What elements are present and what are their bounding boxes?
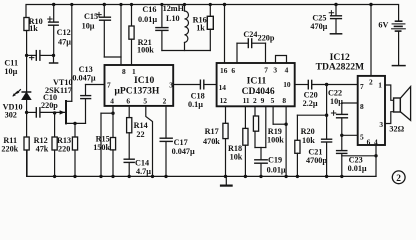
wire IC10 pin4 branch: [112, 106, 114, 138]
svg-text:4: 4: [110, 96, 114, 105]
wire IC11 pin10 / C20 node: [295, 84, 308, 86]
svg-text:2: 2: [253, 96, 257, 105]
capacitor C17 on IC10 pin2 line: [165, 106, 167, 138]
resistor R20: [297, 114, 326, 116]
svg-text:C23: C23: [349, 155, 363, 164]
resistor R11: [24, 137, 29, 150]
capacitor C22: [337, 113, 348, 115]
svg-text:0.047µ: 0.047µ: [72, 73, 95, 82]
wire IC12 pin4 / ground return: [375, 145, 377, 176]
node gate/R12 junction: [53, 111, 56, 114]
svg-text:32Ω: 32Ω: [389, 125, 404, 134]
svg-text:4: 4: [285, 65, 289, 74]
svg-text:C15: C15: [84, 12, 98, 21]
svg-text:0.047µ: 0.047µ: [172, 147, 195, 156]
svg-text:6: 6: [126, 96, 130, 105]
node pin2/pin9 join: [255, 147, 266, 149]
resistor R14 on IC10 pin6 line: [128, 106, 130, 118]
wire bottom ground rail: [27, 150, 376, 176]
svg-text:7: 7: [107, 80, 111, 89]
resistor R10: [24, 18, 29, 31]
capacitor C24 between pin6 and pin7: [236, 43, 238, 63]
wire JFET drain to rail: [71, 5, 73, 102]
svg-text:47k: 47k: [36, 145, 49, 154]
resistor R19 on IC11 pin2 line: [254, 106, 256, 116]
node circled figure number 2: [392, 171, 405, 184]
photodiode VD10: [22, 91, 30, 93]
svg-text:10µ: 10µ: [330, 97, 343, 106]
capacitor C14: [124, 158, 134, 160]
wire IC11 pin5: [272, 106, 274, 124]
wire tank bottom node: [162, 50, 210, 52]
svg-text:TDA2822M: TDA2822M: [316, 61, 365, 72]
wire IC11 pin8 line: [285, 106, 287, 176]
svg-text:0.01µ: 0.01µ: [267, 166, 286, 175]
wire IC10 pin3 to IC11 pin14: [173, 84, 200, 86]
svg-text:12mH: 12mH: [163, 4, 185, 13]
capacitor C12: [53, 5, 55, 23]
svg-text:14: 14: [219, 83, 227, 92]
op-amp U IC12 box: [358, 76, 385, 145]
svg-text:C24: C24: [243, 30, 257, 39]
capacitor C11: [27, 54, 36, 56]
battery 6V: [396, 20, 402, 22]
svg-text:1: 1: [378, 80, 382, 89]
svg-text:100k: 100k: [267, 135, 284, 144]
node C10 junction: [25, 111, 28, 114]
svg-text:0.01µ: 0.01µ: [138, 15, 157, 24]
svg-text:IC11: IC11: [247, 75, 267, 86]
svg-text:0.01µ: 0.01µ: [348, 164, 367, 173]
svg-text:C19: C19: [268, 156, 282, 165]
svg-text:1k: 1k: [29, 24, 38, 33]
ground symbol: [225, 176, 227, 185]
node rail junctions: [53, 175, 56, 178]
svg-text:4700p: 4700p: [306, 156, 327, 165]
svg-text:2.2µ: 2.2µ: [303, 99, 318, 108]
svg-text:6: 6: [231, 66, 235, 75]
svg-text:R20: R20: [301, 127, 315, 136]
svg-text:47µ: 47µ: [58, 38, 71, 47]
svg-text:220p: 220p: [41, 101, 58, 110]
wire IC11 pin9 line: [265, 106, 267, 147]
svg-text:2SK117: 2SK117: [45, 86, 72, 95]
svg-text:IC10: IC10: [134, 75, 154, 86]
capacitor C23: [337, 150, 347, 152]
op-amp U IC10 box: [105, 65, 174, 106]
svg-text:6V: 6V: [378, 20, 388, 29]
transistor VT10 2SK117 JFET: [40, 111, 64, 113]
svg-text:10k: 10k: [230, 153, 243, 162]
node source/R13 junction: [73, 122, 76, 125]
inductor L10: [184, 5, 186, 12]
svg-text:3: 3: [273, 65, 277, 74]
svg-text:R17: R17: [205, 127, 219, 136]
capacitor C20: [307, 80, 309, 88]
svg-text:470k: 470k: [203, 137, 220, 146]
svg-text:6: 6: [367, 137, 371, 146]
svg-text:3: 3: [379, 120, 383, 129]
svg-text:302: 302: [5, 110, 17, 119]
svg-text:220p: 220p: [258, 34, 275, 43]
wire IC10 pin8 to rail: [120, 5, 122, 66]
svg-text:0.1µ: 0.1µ: [188, 100, 203, 109]
wire IC12 pin2 to rail: [370, 5, 372, 76]
svg-text:10: 10: [283, 80, 291, 89]
speaker 32 ohm: [394, 98, 401, 112]
svg-text:4.7µ: 4.7µ: [136, 167, 151, 176]
capacitor C25: [334, 3, 337, 6]
svg-text:1: 1: [132, 67, 136, 76]
capacitor C15: [103, 3, 106, 6]
svg-text:10k: 10k: [302, 136, 315, 145]
wire IC11 pins 3-4 jumper: [276, 56, 287, 64]
wire top supply rail: [26, 5, 399, 31]
svg-text:7: 7: [264, 65, 268, 74]
capacitor C21 branch: [326, 85, 328, 140]
wire left main line: [26, 31, 28, 93]
svg-text:8: 8: [122, 67, 126, 76]
wire IC12 pin3 to speaker: [385, 112, 394, 124]
resistor R12: [54, 113, 56, 137]
wire IC12 pin5: [342, 134, 358, 136]
svg-text:10µ: 10µ: [4, 67, 17, 76]
node top rail / C12: [52, 3, 55, 6]
capacitor C16: [161, 5, 163, 28]
capacitor C10: [27, 111, 36, 113]
resistor R17 on IC11 pin12 line: [225, 106, 227, 123]
svg-text:2: 2: [396, 174, 401, 184]
svg-text:220k: 220k: [1, 145, 18, 154]
node C11 junction on left line: [25, 54, 28, 57]
svg-text:µPC1373H: µPC1373H: [114, 85, 160, 96]
node C11/C12 junction: [52, 54, 55, 57]
op-amp U IC11 box: [217, 63, 295, 106]
chassis stub below C11/C12: [53, 55, 55, 62]
capacitor C18: [199, 80, 201, 89]
wire IC10 pin7: [86, 84, 105, 86]
svg-text:100k: 100k: [137, 46, 154, 55]
wire IC12 pin8 / C22 branch: [342, 102, 358, 104]
capacitor C13: [85, 85, 87, 96]
svg-text:5: 5: [271, 96, 275, 105]
wire IC11 pin16 to rail: [224, 5, 226, 64]
resistor R15: [110, 138, 115, 150]
svg-text:C17: C17: [174, 138, 188, 147]
svg-text:9: 9: [261, 96, 265, 105]
svg-text:8: 8: [360, 102, 364, 111]
svg-text:7: 7: [360, 82, 364, 91]
svg-text:C12: C12: [57, 28, 71, 37]
resistor R13: [74, 123, 76, 137]
wire IC10 pin5: [146, 106, 153, 176]
svg-text:11: 11: [243, 96, 250, 105]
resistor R16: [209, 5, 211, 17]
svg-text:R14: R14: [134, 121, 148, 130]
svg-text:C18: C18: [191, 91, 205, 100]
svg-text:10µ: 10µ: [82, 22, 95, 31]
capacitor C19: [260, 148, 262, 160]
svg-text:1k: 1k: [196, 23, 205, 32]
resistor R21 on IC10 pin1 line: [131, 5, 133, 27]
svg-text:12: 12: [220, 96, 228, 105]
svg-text:2: 2: [163, 96, 167, 105]
svg-text:5: 5: [143, 96, 147, 105]
resistor R18 on IC11 pin11 line: [244, 106, 246, 128]
svg-text:470µ: 470µ: [310, 22, 327, 31]
svg-text:5: 5: [360, 133, 364, 142]
svg-text:22: 22: [136, 130, 144, 139]
svg-text:C16: C16: [142, 5, 156, 14]
wire IC12 pin1 to speaker: [385, 85, 394, 100]
svg-text:150k: 150k: [93, 143, 110, 152]
svg-text:16: 16: [220, 66, 228, 75]
svg-text:2: 2: [369, 78, 373, 87]
svg-text:L10: L10: [166, 14, 180, 23]
svg-text:8: 8: [282, 96, 286, 105]
svg-text:220: 220: [58, 145, 70, 154]
